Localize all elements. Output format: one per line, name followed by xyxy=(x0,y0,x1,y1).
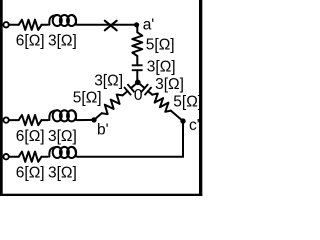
wire terminal-c to R xyxy=(9,156,19,158)
wire R to b' xyxy=(94,113,102,120)
wire L to break mark xyxy=(77,24,136,26)
svg-text:6[Ω]: 6[Ω] xyxy=(16,128,45,145)
wire terminal-b to R xyxy=(9,119,19,121)
wire corner up to c' xyxy=(182,121,184,157)
node c' dot xyxy=(180,118,185,123)
wire C to R left xyxy=(123,91,128,95)
svg-text:b': b' xyxy=(97,122,109,139)
node a' dot xyxy=(134,22,139,27)
svg-text:3[Ω]: 3[Ω] xyxy=(48,32,77,49)
inductor 3 ohm phase c xyxy=(53,147,62,158)
node 0 dot xyxy=(135,80,141,86)
svg-text:5[Ω]: 5[Ω] xyxy=(173,93,202,110)
wire node 0 to C right xyxy=(138,82,145,88)
capacitor 3 ohm left xyxy=(124,84,134,95)
svg-text:a': a' xyxy=(143,17,155,34)
wire C to R right xyxy=(148,91,152,95)
wire-break mark X xyxy=(105,21,117,31)
terminal of phase a xyxy=(3,22,8,27)
svg-text:c': c' xyxy=(189,117,200,134)
wire L to corner xyxy=(77,156,183,158)
wire terminal-a to R xyxy=(9,24,19,26)
svg-text:0: 0 xyxy=(134,87,143,104)
terminal of phase c xyxy=(3,154,8,159)
svg-text:3[Ω]: 3[Ω] xyxy=(94,72,123,89)
node b' dot xyxy=(91,117,96,122)
resistor 6 ohm phase b xyxy=(19,115,42,125)
wire R to c' xyxy=(171,111,183,121)
resistor 6 ohm phase c xyxy=(19,152,42,162)
wire C to node 0 xyxy=(136,70,138,82)
svg-text:5[Ω]: 5[Ω] xyxy=(146,37,175,54)
capacitor 3 ohm vertical xyxy=(132,65,143,70)
wire L to b' xyxy=(77,119,94,121)
wire R to L phase a xyxy=(42,24,48,26)
frame left border xyxy=(0,0,3,196)
svg-text:5[Ω]: 5[Ω] xyxy=(73,90,102,107)
wire R to C vertical xyxy=(136,56,138,65)
wire node 0 to C left xyxy=(131,82,138,88)
svg-text:6[Ω]: 6[Ω] xyxy=(16,164,45,181)
svg-text:3[Ω]: 3[Ω] xyxy=(48,164,77,181)
resistor 5 ohm vertical xyxy=(132,32,142,56)
inductor 3 ohm phase a xyxy=(53,15,62,26)
inductor 3 ohm phase b xyxy=(53,110,62,121)
svg-text:3[Ω]: 3[Ω] xyxy=(147,58,176,75)
wire a' down to R xyxy=(136,25,138,33)
svg-text:6[Ω]: 6[Ω] xyxy=(16,32,45,49)
svg-text:3[Ω]: 3[Ω] xyxy=(48,128,77,145)
terminal of phase b xyxy=(3,117,8,122)
frame right border xyxy=(199,0,202,196)
resistor 5 ohm left xyxy=(102,94,123,114)
resistor 6 ohm phase a xyxy=(19,20,42,30)
svg-text:3[Ω]: 3[Ω] xyxy=(155,76,184,93)
wire R to L phase b xyxy=(42,119,48,121)
wire R to L phase c xyxy=(42,156,48,158)
frame bottom border xyxy=(0,194,202,196)
resistor 5 ohm right xyxy=(152,94,171,112)
capacitor 3 ohm right xyxy=(141,84,151,95)
